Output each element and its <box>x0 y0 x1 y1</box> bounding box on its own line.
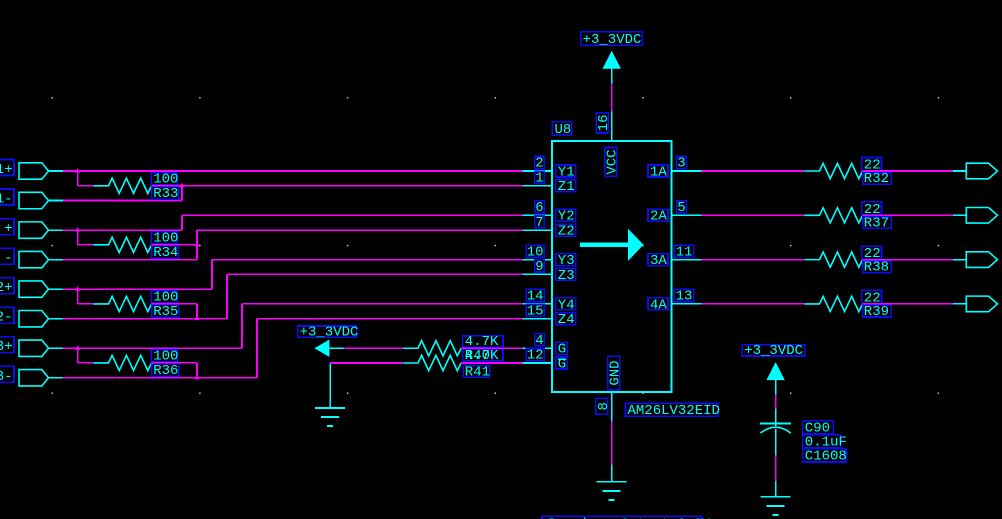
wire pair 4 minus net <box>63 319 523 378</box>
wire output 4 to connector <box>863 303 953 305</box>
wire output 1 to connector <box>863 170 953 172</box>
junction <box>75 286 80 291</box>
wire resistor drop pair 3 <box>78 289 94 304</box>
buffer direction arrow inside U8 <box>580 229 644 261</box>
capacitor C90 0.1uF <box>760 409 847 465</box>
svg-text:R41: R41 <box>465 364 490 380</box>
connector input pair 3 plus <box>19 281 63 297</box>
U8 right pin 5 stub <box>671 214 701 216</box>
svg-text:Y4: Y4 <box>558 297 575 313</box>
connector input pair 1 minus <box>19 192 63 208</box>
wire pair 4 plus net <box>63 304 523 348</box>
svg-text:Z1: Z1 <box>558 179 575 195</box>
svg-text:6: 6 <box>535 200 543 216</box>
wire resistor to minus net <box>152 244 197 246</box>
svg-text:1: 1 <box>535 170 543 186</box>
svg-text:2+: 2+ <box>0 280 13 296</box>
resistor R40 4.7K <box>403 334 503 364</box>
svg-text:Z2: Z2 <box>558 223 575 239</box>
U8 pin name 3A <box>648 253 668 269</box>
power symbol +3_3VDC (decoupling) <box>742 343 805 394</box>
connector input pair 4 minus <box>19 370 63 386</box>
U8 refdes label <box>552 122 571 138</box>
wire resistor to minus net <box>152 304 197 319</box>
U8 pin name G <box>556 342 568 358</box>
wire output 2 from U8 <box>702 214 805 216</box>
U8 pin number 4 <box>535 333 544 349</box>
svg-text:R36: R36 <box>153 363 178 379</box>
svg-text:11: 11 <box>676 244 693 260</box>
svg-text:R37: R37 <box>864 215 889 231</box>
wire pair 3 minus net <box>63 274 523 318</box>
svg-text:VCC: VCC <box>605 149 621 174</box>
svg-text:Z3: Z3 <box>558 268 575 284</box>
svg-text:1-: 1- <box>0 192 13 208</box>
svg-text:13: 13 <box>676 289 693 305</box>
net label - (clipped) <box>0 248 14 267</box>
net label 1- (clipped) <box>0 189 14 208</box>
svg-text:+3_3VDC: +3_3VDC <box>744 343 803 359</box>
U8 pin number 2 <box>535 156 544 172</box>
power symbol +3_3VDC (top, VCC) <box>581 32 643 84</box>
net label + (clipped) <box>0 219 14 238</box>
U8 left pin 1 stub <box>523 185 553 187</box>
junction <box>75 168 80 173</box>
U8 pin number 9 <box>535 259 544 275</box>
connector input pair 2 minus <box>19 251 63 267</box>
wire R40 to pin 4 <box>461 347 522 349</box>
U8 pin name VCC (rotated) <box>605 148 621 177</box>
U8 pin number 7 <box>535 215 544 231</box>
svg-text:9: 9 <box>535 259 543 275</box>
wire output 4 from U8 <box>702 303 805 305</box>
U8 right pin 13 stub <box>671 303 701 305</box>
svg-text:15: 15 <box>527 303 544 319</box>
junction <box>194 316 199 321</box>
title text Receiver Output 3.3V (clipped at bottom) <box>542 516 711 519</box>
U8 pin number 6 <box>535 200 544 216</box>
wire pair 3 plus net <box>63 260 523 290</box>
wire resistor drop pair 4 <box>78 348 94 363</box>
svg-text:3+: 3+ <box>0 339 13 355</box>
U8 pin name Z4 <box>556 312 576 328</box>
wire C90 to ground <box>775 456 777 482</box>
svg-text:3: 3 <box>677 156 685 172</box>
power symbol +3_3VDC (left, enable pull) <box>298 324 359 357</box>
svg-text:5: 5 <box>677 200 685 216</box>
resistor R36 100 ohm <box>93 349 179 379</box>
wire pair 1 plus net <box>63 170 523 172</box>
svg-text:4: 4 <box>535 333 543 349</box>
connector input pair 2 plus <box>19 222 63 238</box>
svg-text:1+: 1+ <box>0 162 13 178</box>
U8 left pin 2 stub <box>523 170 553 172</box>
svg-text:4.7K: 4.7K <box>465 348 499 364</box>
resistor R34 100 ohm <box>93 231 179 261</box>
U8 left pin 14 stub <box>523 303 553 305</box>
svg-text:R33: R33 <box>153 186 178 202</box>
U8 pin name Z2 <box>556 223 576 239</box>
svg-text:R32: R32 <box>864 171 889 187</box>
U8 pin name Y3 <box>556 253 576 269</box>
resistor R38 22 ohm <box>804 246 891 276</box>
wire pair 1 minus net <box>63 186 523 201</box>
svg-text:U8: U8 <box>555 122 572 138</box>
net label 3+ (clipped) <box>0 337 14 356</box>
net label 1+ (clipped) <box>0 160 14 179</box>
wire resistor drop pair 2 <box>78 230 94 245</box>
U8 pin name Z1 <box>556 179 576 195</box>
U8 pin number 14 <box>526 289 544 305</box>
svg-text:Z4: Z4 <box>558 312 575 328</box>
svg-text:2-: 2- <box>0 310 13 326</box>
wire VCC net (pin16 to power) <box>611 84 613 112</box>
U8 pin number 8 (rotated) <box>596 398 612 414</box>
wire resistor drop pair 1 <box>78 171 94 186</box>
svg-text:Y1: Y1 <box>558 164 575 180</box>
wire output 3 from U8 <box>702 259 805 261</box>
wire output 3 to connector <box>863 259 953 261</box>
svg-text:4A: 4A <box>650 297 667 313</box>
U8 pin number 11 <box>674 244 694 260</box>
svg-text:2A: 2A <box>650 209 667 225</box>
U8 pin name 1A <box>648 164 668 180</box>
ground (enable) <box>329 363 331 408</box>
U8 pin name 2A <box>648 209 668 225</box>
connector input pair 4 plus <box>19 340 63 356</box>
svg-text:G: G <box>558 342 566 358</box>
wire Gbar pull-down <box>330 362 403 364</box>
U8 pin name Y2 <box>556 209 576 225</box>
IC U8 body AM26LV32EID <box>552 141 671 392</box>
wire G pull-up <box>344 347 403 349</box>
wire pair 2 plus net <box>63 215 523 230</box>
wire resistor to minus net <box>152 185 182 187</box>
svg-text:+3_3VDC: +3_3VDC <box>583 32 642 48</box>
wire resistor to minus net <box>152 363 197 378</box>
net label 2+ (clipped) <box>0 278 14 297</box>
ground (C90) <box>775 481 777 497</box>
connector output 4 <box>953 296 998 312</box>
svg-text:R35: R35 <box>153 304 178 320</box>
svg-text:14: 14 <box>527 289 544 305</box>
wire output 2 to connector <box>863 214 953 216</box>
svg-text:R38: R38 <box>864 260 889 276</box>
resistor R41 4.7K <box>403 355 490 380</box>
connector output 3 <box>953 252 998 268</box>
svg-text:10: 10 <box>527 244 544 260</box>
svg-text:GND: GND <box>608 360 624 385</box>
svg-text:8: 8 <box>596 402 612 410</box>
U8 pin number 13 <box>674 289 694 305</box>
U8 left pin 4 stub <box>523 347 553 349</box>
U8 pin number 1 <box>535 170 544 186</box>
svg-text:2: 2 <box>535 156 543 172</box>
wire output 1 from U8 <box>702 170 805 172</box>
U8 right pin 11 stub <box>671 259 701 261</box>
net label 2- (clipped) <box>0 307 14 326</box>
junction <box>179 183 184 188</box>
svg-text:AM26LV32EID: AM26LV32EID <box>628 403 720 419</box>
U8 part number label AM26LV32EID <box>626 403 720 419</box>
svg-text:+: + <box>4 221 12 237</box>
U8 pin name G <box>556 356 568 372</box>
junction <box>75 227 80 232</box>
junction <box>194 242 199 247</box>
U8 left pin 7 stub <box>523 229 553 231</box>
svg-text:3A: 3A <box>650 253 667 269</box>
U8 left pin 10 stub <box>523 259 553 261</box>
net label 3- (clipped) <box>0 366 14 385</box>
U8 left pin 9 stub <box>523 273 553 275</box>
svg-text:+3_3VDC: +3_3VDC <box>300 324 359 340</box>
U8 VCC pin 16 stub <box>611 112 613 142</box>
svg-text:R39: R39 <box>864 304 889 320</box>
U8 right pin 3 stub <box>671 170 701 172</box>
U8 pin name GND (rotated) <box>608 356 624 389</box>
svg-text:12: 12 <box>527 348 544 364</box>
svg-text:3-: 3- <box>0 369 13 385</box>
svg-text:C1608: C1608 <box>805 449 847 465</box>
U8 GND pin 8 stub <box>611 392 613 422</box>
wire GND net (pin 8) <box>611 422 613 465</box>
resistor R39 22 ohm <box>804 290 891 320</box>
svg-text:1A: 1A <box>650 164 667 180</box>
wire +3.3V to C90 <box>775 394 777 408</box>
connector output 1 <box>953 163 998 179</box>
resistor R33 100 ohm <box>93 172 179 202</box>
U8 left pin 15 stub <box>523 318 553 320</box>
resistor R32 22 ohm <box>804 158 891 188</box>
connector output 2 <box>953 208 998 224</box>
resistor R37 22 ohm <box>804 202 891 232</box>
svg-text:7: 7 <box>535 215 543 231</box>
svg-text:-: - <box>4 251 12 267</box>
U8 pin name Y1 <box>556 164 576 180</box>
U8 pin name Z3 <box>556 268 576 284</box>
junction <box>75 345 80 350</box>
ground (U8 pin 8) <box>611 465 613 482</box>
wire pair 2 minus net <box>63 230 523 260</box>
U8 pin name 4A <box>648 297 668 313</box>
connector input pair 3 minus <box>19 311 63 327</box>
U8 left pin 6 stub <box>523 214 553 216</box>
svg-text:Y2: Y2 <box>558 209 575 225</box>
svg-text:Y3: Y3 <box>558 253 575 269</box>
svg-text:R34: R34 <box>153 245 178 261</box>
U8 pin number 5 <box>677 200 686 216</box>
U8 pin number 16 (rotated) <box>596 113 612 133</box>
U8 pin number 15 <box>526 303 544 319</box>
U8 left pin 12 stub <box>523 362 553 364</box>
resistor R35 100 ohm <box>93 290 179 320</box>
U8 pin number 10 <box>526 244 544 260</box>
wire R41 to pin 12 <box>461 362 522 364</box>
U8 pin name Y4 <box>556 297 576 313</box>
junction <box>194 375 199 380</box>
U8 pin number 12 <box>526 348 544 364</box>
U8 pin number 3 <box>677 156 686 172</box>
connector input pair 1 plus <box>19 163 63 179</box>
svg-text:16: 16 <box>596 114 612 131</box>
